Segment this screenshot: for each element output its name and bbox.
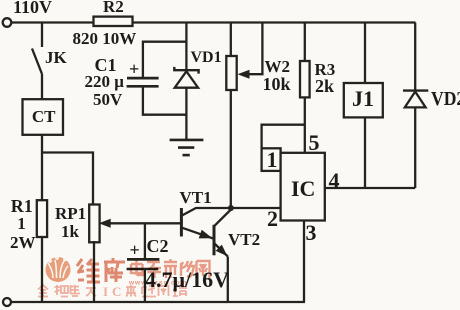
transistor VT1 xyxy=(181,208,231,239)
potentiometer RP1 body xyxy=(89,205,99,243)
value 220u xyxy=(85,72,124,92)
ground symbol xyxy=(170,140,204,155)
relay J1 box xyxy=(344,83,383,117)
resistor R1 body xyxy=(37,200,47,237)
svg-text:I: I xyxy=(103,284,108,299)
watermark chars dianzishichangwang xyxy=(131,259,210,278)
transistor VT2 xyxy=(214,210,231,257)
wire bottom rail xyxy=(11,301,305,303)
label J1 xyxy=(352,86,374,111)
potentiometer W2 body xyxy=(226,56,236,90)
watermark logo circle xyxy=(46,257,71,282)
wire rail down to J1 xyxy=(364,23,366,84)
wire branch to RP1 top xyxy=(42,153,93,207)
wire VD1 to ground xyxy=(185,88,187,140)
value 10k xyxy=(263,74,291,95)
value 2W xyxy=(10,233,36,253)
wire W2 wiper from rail xyxy=(238,23,263,79)
plus C2 xyxy=(130,240,140,261)
label IC xyxy=(291,176,315,201)
value 50V xyxy=(93,90,122,110)
wire W2 bottom to collector node xyxy=(230,90,232,207)
wire VD2 bottom to pin4 line xyxy=(414,107,416,188)
label VT1 xyxy=(180,188,212,208)
transformer CT box xyxy=(23,99,64,135)
label JK xyxy=(45,48,67,68)
value 4.7u/16V xyxy=(145,267,229,292)
wire rail down to R3 xyxy=(304,23,306,62)
diode VD2 xyxy=(403,91,428,108)
wire CT down to bottom rail (through R1) xyxy=(41,134,43,302)
label R2 xyxy=(103,0,124,17)
junction dot collector node xyxy=(228,205,234,211)
wire C2 bottom to rail xyxy=(144,270,146,303)
capacitor C1 plates xyxy=(127,78,159,86)
value 1 xyxy=(17,214,26,234)
wire C1 node branch (top) xyxy=(143,42,187,77)
wire branch to pin1 box xyxy=(262,125,305,149)
watermark char ku xyxy=(104,258,125,282)
wire switch to CT box xyxy=(41,74,43,100)
wire C1 bottom to VD1 bottom xyxy=(143,87,187,115)
svg-text:C: C xyxy=(112,284,121,299)
wire VT2 emitter to bottom rail xyxy=(227,257,229,303)
value 2k xyxy=(315,76,334,97)
switch JK blade xyxy=(32,49,42,75)
label R3 xyxy=(315,60,336,80)
label RP1 xyxy=(55,204,86,224)
watermark line2 quanqiuzuida xyxy=(38,285,96,297)
pin 2 xyxy=(267,206,278,231)
wire RP1 wiper to VT1 base xyxy=(99,219,182,228)
label W2 xyxy=(265,57,291,77)
plus C1 xyxy=(129,59,139,80)
resistor R3 body xyxy=(300,61,310,97)
capacitor C2 plates xyxy=(127,259,160,269)
wire C2 top connection xyxy=(144,223,146,258)
terminal top-left input xyxy=(3,18,12,27)
wire rail down to VD1 xyxy=(185,23,187,71)
wire top rail xyxy=(11,21,416,23)
label C2 xyxy=(147,236,169,257)
wire J1 bottom to pin4 line xyxy=(364,117,366,188)
watermark www xyxy=(128,280,187,287)
wire from rail down to switch JK xyxy=(41,23,43,48)
wire IC pin 3 to bottom rail xyxy=(303,221,305,303)
watermark line2 IC xyxy=(103,284,121,299)
svg-text:www.dzsc.com: www.dzsc.com xyxy=(128,280,187,287)
pin 3 xyxy=(306,220,317,245)
label CT xyxy=(32,107,56,127)
label R1 xyxy=(11,196,33,217)
IC pin 1 box xyxy=(262,148,281,171)
resistor R2 body xyxy=(94,17,133,26)
label VT2 xyxy=(228,230,260,250)
label VD1 xyxy=(191,49,222,67)
label C1 xyxy=(95,55,117,76)
wire R3 bottom to IC pin 5 xyxy=(304,97,306,152)
IC box xyxy=(281,153,325,221)
wire IC pin 4 line xyxy=(325,187,415,189)
pin 5 xyxy=(309,130,320,155)
pin 4 xyxy=(329,168,340,193)
terminal bottom-left xyxy=(3,298,11,306)
watermark line2 caigouwangzhan xyxy=(126,285,187,297)
zener diode VD1 xyxy=(174,67,198,88)
wire RP1 bottom to bottom rail xyxy=(93,241,95,302)
wire rail right end down to VD2 xyxy=(414,23,416,92)
pin 1 xyxy=(267,147,278,172)
wire rail down to W2 xyxy=(230,23,232,57)
value 1k xyxy=(61,222,79,242)
wire IC pin 2 to collector node xyxy=(231,207,281,209)
label VD2 xyxy=(431,88,460,111)
label 110V xyxy=(13,0,52,17)
watermark char wei xyxy=(77,259,100,282)
value 820 10W xyxy=(73,29,137,49)
